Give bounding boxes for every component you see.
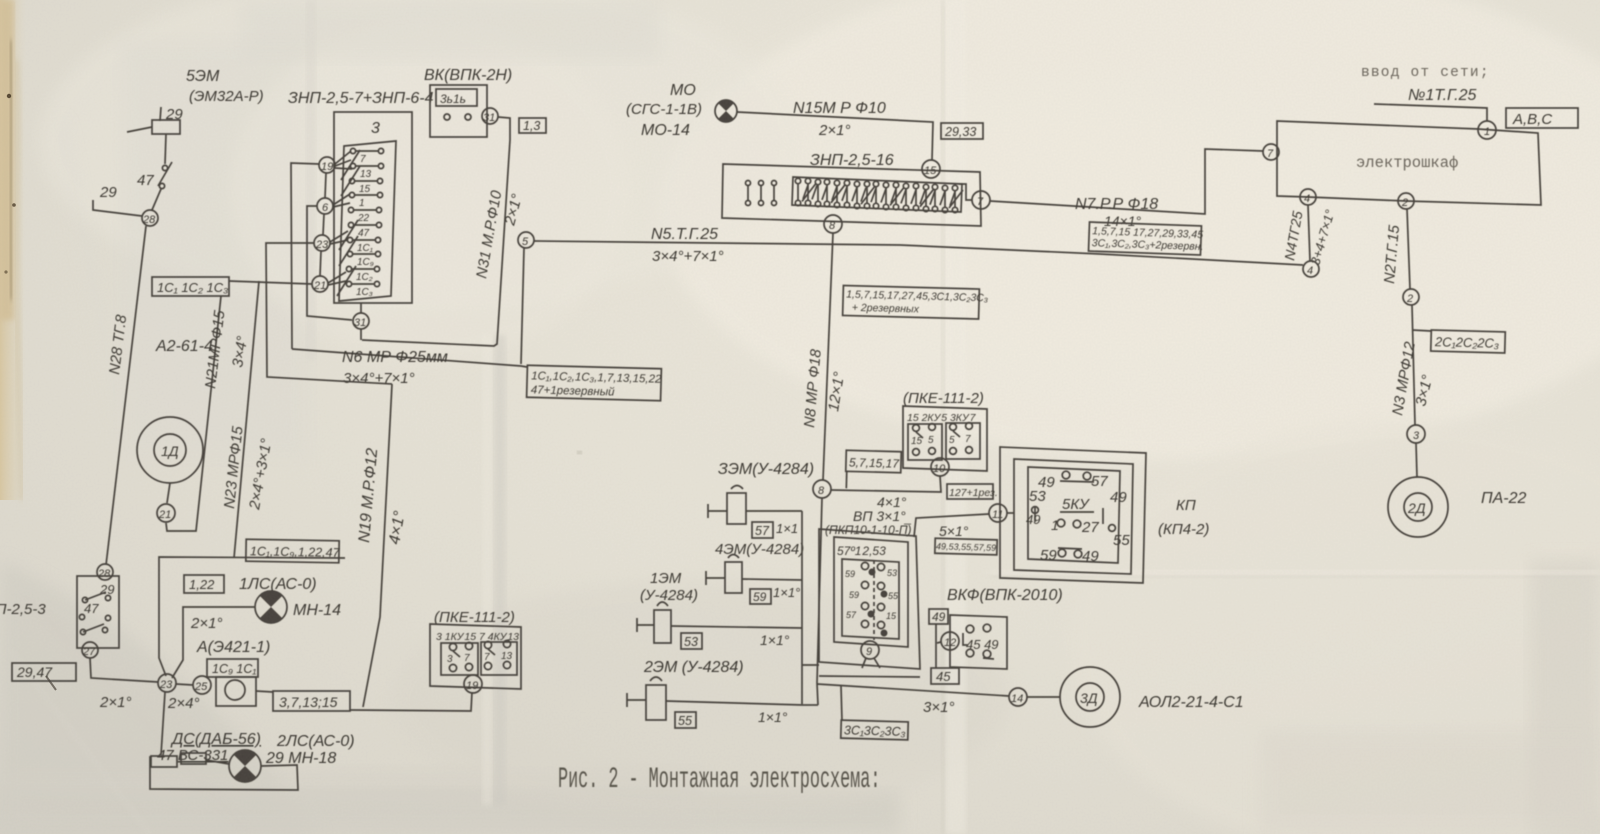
wire contact to node 28 <box>152 189 161 210</box>
tag box 127+1рез <box>947 484 998 499</box>
tag box 29,33 <box>941 123 983 139</box>
contact 47 <box>137 162 172 189</box>
faint dot top-middle <box>577 451 582 454</box>
solenoid 1ЭМ <box>637 602 802 643</box>
bus to ПКЕ node 19 <box>350 692 472 711</box>
collector wire of solenoids <box>802 511 819 705</box>
horizontal crease right half <box>990 570 1600 575</box>
tag box 59 <box>750 589 771 604</box>
node 27 <box>82 642 98 658</box>
wire node19 to N6 bus <box>291 163 319 349</box>
cable label N15М Р Ф10 <box>793 100 886 139</box>
wire N3 МРФ12 <box>1412 305 1415 425</box>
drum switch ВП contacts <box>845 560 899 640</box>
node 4 cabinet <box>1300 189 1316 205</box>
bus N6 МР Ф25мм <box>292 349 527 367</box>
node chain verticals <box>320 151 352 285</box>
contactor КП outer box <box>1000 447 1146 583</box>
tag connector 2С <box>1412 330 1431 331</box>
vertical crease near x=315 top <box>306 0 316 360</box>
node 1 <box>1478 121 1496 139</box>
tag box 29,47 <box>12 663 76 681</box>
solenoid 1ЭМ label <box>640 570 698 604</box>
node 5 <box>518 232 534 248</box>
brighter sheet areas <box>660 0 1600 460</box>
darker top band above center <box>240 0 660 60</box>
cable label N7.Р.Р Ф18 <box>1075 196 1158 229</box>
node 2 lower <box>1403 289 1419 305</box>
wire N2Т.Г.15 <box>1407 209 1410 289</box>
terminal rows of ЗНП-2,5-7 <box>337 148 384 298</box>
cabinet электрошкаф box <box>1277 121 1541 205</box>
left tan edge of photo <box>0 0 26 500</box>
node 31 of ЗНП <box>353 313 369 340</box>
wire N23 МРФ15 from node21 wire down to lamp box <box>234 281 259 558</box>
lamp МН-14 <box>255 591 287 623</box>
tag box 1С1,1Сн,1,22,47 <box>246 539 341 563</box>
tag box 1Сн 1С1 <box>207 659 258 677</box>
motor 3Д <box>1060 667 1120 727</box>
tag box 3С1,3С2,3С3 <box>841 720 908 740</box>
solenoid 3ЭМ <box>708 486 802 525</box>
node 23 <box>314 235 330 251</box>
gray zone left of top crease <box>120 40 310 460</box>
terminal block ЗНП-2,5-7 box <box>334 112 412 313</box>
node 7 on block <box>972 191 990 209</box>
wire node6 to node31 of ЗНП <box>307 206 352 320</box>
node tag 29 with leader <box>93 184 142 216</box>
motor 1Д <box>137 417 203 503</box>
tag box 2С1,2С2,2С3 <box>1431 330 1506 353</box>
tag box 3,7,13,15 <box>273 691 350 711</box>
tag box 1,5,7,15,17,27,45,3С1,3С2,3С3 + 2резервных <box>843 285 989 319</box>
wire 4x1 node8 to node10 <box>831 476 941 492</box>
wire N28 ТГ.8 <box>106 226 146 565</box>
bus 3x1 to motor 3Д <box>817 684 1009 696</box>
wire ВП to node 11 <box>914 514 989 537</box>
bus N5.Т.Г.25 <box>534 241 1303 265</box>
relay coil 5ЭМ symbol with tag 29 <box>127 106 183 134</box>
wire node23 to N19 <box>266 243 392 384</box>
vertical crease right-center <box>946 0 966 834</box>
wire ammeter to tag 3,7,13,15 <box>256 691 273 692</box>
tag box 5,7,15,17 <box>845 450 901 489</box>
drum switch ВП box <box>819 529 920 677</box>
switch ПКЕ-111-2 left box <box>430 624 521 689</box>
terminal block ЗНП-2,5-16 box <box>722 164 981 226</box>
node 21 motor <box>157 504 175 522</box>
node 15 <box>922 160 940 178</box>
wire N19 М.Р.Ф12 vertical <box>363 384 392 707</box>
soft diagonal creases bottom-left <box>30 600 250 834</box>
vertical fold crease center-left <box>494 335 506 805</box>
tag box А,В,С <box>1506 108 1578 128</box>
wire N7.Р.Р Ф18 <box>990 149 1263 214</box>
solenoid 4ЭМ <box>706 555 802 594</box>
tag box 1С1 1С2 1С3 <box>152 277 229 296</box>
terminal columns of ЗНП-2,5-16 <box>746 178 964 212</box>
wire node8 down to bus junction <box>817 498 822 705</box>
wire node5 down to N6 bus <box>521 248 524 364</box>
wire N15М Р Ф10 <box>737 112 933 160</box>
node 28 upper <box>142 210 158 226</box>
wire coil to contact 47 <box>165 134 166 164</box>
wire №1 feed <box>1374 104 1487 121</box>
node 31 on ВК <box>482 108 498 124</box>
speed relay ДС symbols <box>151 753 229 767</box>
contactor КП contacts <box>1026 471 1130 565</box>
tag box 53 <box>681 633 702 649</box>
tag drop 3С <box>841 686 842 721</box>
speed relay ДС labels <box>157 731 355 767</box>
node 6 <box>317 198 333 214</box>
label КП (КП4-2) <box>1158 497 1209 538</box>
darker bottom-left <box>0 790 900 834</box>
wire 27 to 23 <box>90 658 158 682</box>
lamp box 1ЛС top edge <box>159 557 345 676</box>
node 19 ПКЕ <box>464 675 482 693</box>
node 7 cabinet <box>1263 144 1279 160</box>
breaker АП-2,5-3 box <box>77 576 119 648</box>
tag box 1,3 <box>519 118 546 133</box>
node 19 <box>319 157 335 173</box>
node 2 cabinet <box>1398 193 1414 209</box>
wire N4ТГ25 <box>1308 205 1310 261</box>
node 11 <box>989 504 1014 522</box>
lamp МО symbol <box>715 100 737 123</box>
wire N21 МРФ15 from 1С box to motor 1Д <box>166 296 221 531</box>
lamp МО labels <box>626 82 702 139</box>
tag box 49,53,55,57,59 <box>935 538 997 555</box>
tag box 45 <box>931 668 959 684</box>
node 3 <box>1407 425 1425 443</box>
node 9 <box>861 641 880 668</box>
solenoid 2ЭМ <box>627 677 803 720</box>
relay coil 5ЭМ label <box>186 68 264 105</box>
node 10 <box>931 458 949 476</box>
wire node21 to 1С box <box>229 281 312 284</box>
node 4 lower <box>1303 261 1319 277</box>
node 21 <box>312 276 328 292</box>
tag box 57 <box>752 522 773 538</box>
node 28 lower <box>97 564 113 580</box>
tag box 1,5,7,15... 3С1,3С2,3С3+2резервн <box>1089 222 1205 255</box>
tag box 1,22 <box>184 575 224 593</box>
cable label N6 <box>342 349 448 387</box>
switch ПКЕ-111-2 mid box <box>903 406 987 471</box>
node 12 <box>937 632 959 650</box>
return loop 2ЛС <box>150 757 298 790</box>
node 8 on block <box>824 215 842 233</box>
tag box 1Сн,1С2,1С3,1,7,13,15,22 47+1резервный <box>527 365 663 401</box>
node 25 <box>176 676 211 694</box>
node 23 lower <box>158 674 176 692</box>
tag box 55 <box>675 712 696 728</box>
node 14 <box>1009 688 1027 706</box>
wire lamp to node 23 <box>172 607 255 678</box>
limit switch ВК box <box>430 85 487 137</box>
wire node3 to motor 2Д <box>1416 443 1417 477</box>
wire node23 down to ДС <box>161 692 165 755</box>
ammeter А <box>216 677 256 706</box>
wire N31 М.Р.Ф10 from ВК down to ЗНП node 31 <box>362 117 510 346</box>
motor 2Д <box>1388 477 1448 537</box>
wire 49 to 45 <box>935 624 937 668</box>
wire strip to node 7 <box>959 184 972 200</box>
cable label N5.Т.Г.25 <box>651 226 724 265</box>
wire N8 МР Ф18 vertical <box>823 233 833 480</box>
wire node14 to 3Д <box>1027 696 1060 698</box>
lamp 2ЛС МН-18 <box>229 750 261 782</box>
tag box 49 <box>929 609 948 624</box>
limit switch ВКФ box <box>950 615 1007 669</box>
node 8 lower <box>813 480 831 498</box>
